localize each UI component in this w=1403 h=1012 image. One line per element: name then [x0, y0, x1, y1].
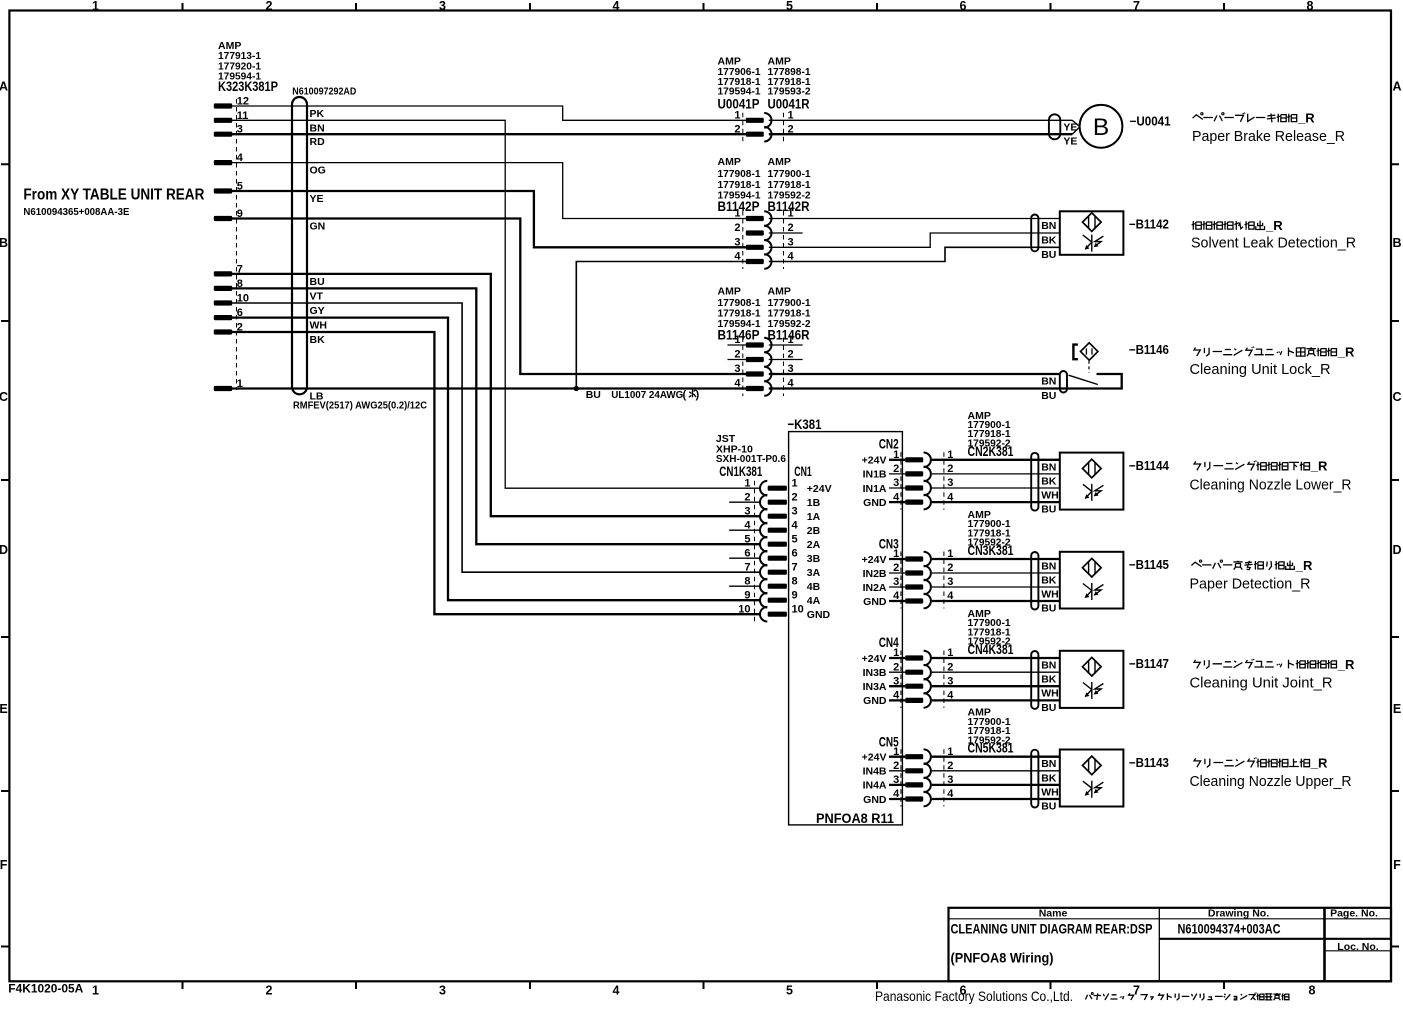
- svg-text:−B1144: −B1144: [1129, 459, 1169, 473]
- svg-text:+24V: +24V: [862, 554, 887, 566]
- svg-text:5: 5: [786, 0, 793, 13]
- svg-text:AMP: AMP: [768, 286, 791, 298]
- svg-text:3: 3: [744, 505, 750, 517]
- svg-text:1: 1: [893, 449, 899, 461]
- connector pair B1142P/B1142R header: [718, 156, 811, 215]
- svg-text:4: 4: [613, 984, 620, 998]
- svg-text:E: E: [0, 702, 8, 716]
- svg-text:1: 1: [893, 647, 899, 659]
- wire PK pin12 to U0041P pin1: [232, 106, 746, 120]
- svg-text:1B: 1B: [807, 497, 821, 509]
- svg-text:CN2K381: CN2K381: [968, 444, 1014, 460]
- svg-text:BU: BU: [310, 276, 325, 288]
- svg-text:4: 4: [613, 0, 620, 13]
- svg-text:+24V: +24V: [807, 483, 832, 495]
- wire CN5K381 pin2 to sensor: [932, 770, 1060, 772]
- svg-text:_R: _R: [1310, 459, 1328, 474]
- wire B1146R pin2 stub: [769, 359, 803, 361]
- junction BU net: [574, 386, 579, 391]
- svg-text:From XY TABLE UNIT REAR: From XY TABLE UNIT REAR: [23, 187, 204, 204]
- wire GY pin10 to CN1 pin7: [232, 303, 761, 572]
- Japanese label B1144: [1194, 461, 1309, 471]
- svg-text:_R: _R: [1337, 657, 1355, 672]
- svg-text:IN2B: IN2B: [863, 568, 887, 580]
- svg-text:CN1K381: CN1K381: [719, 464, 762, 480]
- wire B1142R pin2 stub: [769, 232, 803, 234]
- svg-text:IN3A: IN3A: [863, 681, 887, 693]
- svg-text:A: A: [0, 79, 8, 93]
- svg-text:N610094374+003AC: N610094374+003AC: [1178, 921, 1281, 937]
- Japanese label cleaning unit lock: [1194, 347, 1337, 357]
- svg-text:1: 1: [734, 208, 740, 220]
- connector pair U0041P/U0041R header: [718, 56, 811, 113]
- svg-text:UL1007 24AWG: UL1007 24AWG: [611, 389, 683, 401]
- svg-text:1: 1: [92, 984, 99, 998]
- svg-text:F: F: [1393, 858, 1401, 872]
- svg-text:Cleaning Nozzle Lower_R: Cleaning Nozzle Lower_R: [1190, 476, 1352, 493]
- cable bundle oval N610097292AD: [292, 97, 307, 394]
- svg-text:1: 1: [92, 0, 99, 13]
- svg-text:4: 4: [734, 251, 741, 263]
- svg-text:8: 8: [792, 575, 798, 587]
- svg-text:9: 9: [792, 589, 798, 601]
- wire LB pin1 to B1146P pin4: [232, 387, 746, 389]
- svg-text:BK: BK: [1041, 475, 1057, 487]
- connector pair B1142P/B1142R pins: [734, 208, 794, 269]
- Japanese label B1147: [1194, 659, 1337, 669]
- svg-text:−U0041: −U0041: [1130, 115, 1171, 129]
- svg-text:IN1A: IN1A: [863, 483, 887, 495]
- svg-text:RMFEV(2517) AWG25(0.2)/12C: RMFEV(2517) AWG25(0.2)/12C: [293, 400, 427, 412]
- border row letters: [0, 79, 1402, 872]
- sensor B1143: [1031, 750, 1123, 808]
- svg-text:7: 7: [792, 561, 798, 573]
- svg-text:Paper Brake Release_R: Paper Brake Release_R: [1192, 128, 1345, 145]
- wire B1142R pin4 to sensor BU: [769, 247, 1060, 261]
- svg-text:1: 1: [734, 110, 740, 122]
- title block texts: [951, 908, 1379, 966]
- relay terminal block K381 box: [789, 432, 903, 825]
- wire CN1 pin6 stub: [729, 557, 760, 559]
- connector CN4K381 AMP header: [968, 608, 1014, 658]
- svg-text:RD: RD: [310, 136, 326, 148]
- wire CN3K381 pin4 to sensor: [932, 600, 1060, 602]
- svg-text:BU: BU: [1041, 249, 1056, 261]
- svg-text:Panasonic Factory Solutions Co: Panasonic Factory Solutions Co.,Ltd.: [875, 988, 1073, 1004]
- svg-text:IN1B: IN1B: [863, 469, 887, 481]
- svg-text:2A: 2A: [807, 539, 821, 551]
- svg-text:CN5K381: CN5K381: [968, 741, 1014, 757]
- wire CN2K381 pin2 to sensor: [932, 473, 1060, 475]
- svg-text:2: 2: [893, 463, 899, 475]
- svg-text:GN: GN: [310, 221, 326, 233]
- svg-text:6: 6: [792, 547, 798, 559]
- svg-text:3: 3: [734, 363, 740, 375]
- svg-text:3: 3: [893, 675, 899, 687]
- wire CN4K381 pin1 to sensor: [932, 657, 1060, 659]
- connector CN1K381 header: [716, 433, 786, 480]
- svg-text:OG: OG: [310, 165, 326, 177]
- svg-text:(PNFOA8 Wiring): (PNFOA8 Wiring): [951, 949, 1054, 965]
- svg-text:8: 8: [1309, 984, 1316, 998]
- svg-text:B: B: [1392, 236, 1401, 250]
- svg-text:BN: BN: [1041, 220, 1056, 232]
- svg-text:9: 9: [744, 589, 750, 601]
- svg-text:1: 1: [744, 477, 750, 489]
- svg-text:−B1143: −B1143: [1129, 756, 1169, 770]
- wire B1146R pin4 BU return: [769, 374, 1122, 389]
- svg-text:−B1146: −B1146: [1129, 343, 1169, 357]
- svg-text:YE: YE: [1063, 136, 1077, 148]
- svg-text:6: 6: [960, 0, 967, 13]
- svg-text:BU: BU: [1041, 603, 1056, 615]
- svg-text:7: 7: [1133, 0, 1140, 13]
- svg-text:3: 3: [893, 774, 899, 786]
- wire B1142R pin1 BN to sensor: [769, 218, 1060, 220]
- svg-text:1A: 1A: [807, 511, 821, 523]
- svg-text:PNFOA8 R11: PNFOA8 R11: [816, 811, 894, 827]
- svg-text:C: C: [1392, 390, 1401, 404]
- Japanese label B1143: [1194, 757, 1309, 767]
- wire CN2K381 pin4 to sensor: [932, 501, 1060, 503]
- svg-text:BK: BK: [1041, 235, 1057, 247]
- svg-text:D: D: [0, 543, 8, 557]
- svg-text:4: 4: [893, 491, 900, 503]
- Japanese label solvent leak detection: [1192, 221, 1265, 230]
- svg-text:3: 3: [792, 505, 798, 517]
- svg-text:Loc. No.: Loc. No.: [1337, 941, 1378, 953]
- svg-text:2: 2: [893, 661, 899, 673]
- wire B1146R pin3 BN to switch: [769, 373, 1060, 375]
- sensor B1143 wire labels: [1041, 758, 1059, 812]
- svg-text:N610094365+008AA-3E: N610094365+008AA-3E: [23, 206, 129, 218]
- svg-text:2: 2: [893, 760, 899, 772]
- wire CN3K381 pin1 to sensor: [932, 558, 1060, 560]
- svg-text:BK: BK: [310, 334, 326, 346]
- connector CN5/CN5K381 pins: [862, 746, 955, 807]
- svg-text:−K381: −K381: [788, 417, 822, 433]
- svg-text:10: 10: [738, 603, 750, 615]
- svg-text:2: 2: [734, 123, 740, 135]
- sensor B1144 wire labels: [1041, 461, 1059, 515]
- svg-text:_R: _R: [1337, 345, 1355, 360]
- svg-text:10: 10: [792, 603, 804, 615]
- switch B1146 cleaning unit lock: [1060, 343, 1098, 393]
- svg-text:GND: GND: [807, 609, 831, 621]
- svg-text:YE: YE: [310, 193, 324, 205]
- wire CN3K381 pin3 to sensor: [932, 586, 1060, 588]
- svg-text:3: 3: [439, 0, 446, 13]
- wire CN1 pin8 stub: [729, 585, 760, 587]
- svg-text:BN: BN: [310, 122, 325, 134]
- svg-text:WH: WH: [1041, 688, 1059, 700]
- svg-text:Drawing No.: Drawing No.: [1208, 908, 1269, 920]
- wire BK pin2 to CN1 pin10: [232, 332, 761, 614]
- svg-text:C: C: [0, 390, 8, 404]
- wire CN5K381 pin4 to sensor: [932, 798, 1060, 800]
- svg-text:4B: 4B: [807, 581, 821, 593]
- connector CN3/CN3K381 pins: [862, 548, 955, 608]
- svg-text:4A: 4A: [807, 595, 821, 607]
- svg-text:CLEANING UNIT DIAGRAM REAR:DSP: CLEANING UNIT DIAGRAM REAR:DSP: [951, 921, 1153, 937]
- connector CN1 pins: [738, 477, 831, 621]
- sensor B1145: [1031, 552, 1123, 610]
- svg-text:AMP: AMP: [718, 286, 741, 298]
- svg-text:N610097292AD: N610097292AD: [292, 86, 356, 98]
- svg-text:WH: WH: [1041, 589, 1059, 601]
- svg-text:BK: BK: [1041, 575, 1057, 587]
- wire BU branch to B1142P pin4: [576, 262, 746, 389]
- svg-text:−B1145: −B1145: [1129, 558, 1169, 572]
- svg-text:VT: VT: [310, 290, 324, 302]
- svg-text:BU: BU: [1041, 390, 1056, 402]
- svg-text:BU: BU: [586, 389, 601, 401]
- svg-text:2: 2: [893, 562, 899, 574]
- wire CN4K381 pin4 to sensor: [932, 699, 1060, 701]
- svg-text:4: 4: [893, 590, 900, 602]
- wire CN5K381 pin1 to sensor: [932, 756, 1060, 758]
- svg-text:B: B: [0, 236, 8, 250]
- wire B1146P pin2 stub left: [728, 359, 747, 361]
- wire CN2K381 pin3 to sensor: [932, 487, 1060, 489]
- svg-text:3B: 3B: [807, 553, 821, 565]
- svg-text:+24V: +24V: [862, 752, 887, 764]
- svg-text:2B: 2B: [807, 525, 821, 537]
- svg-text:_R: _R: [1310, 756, 1328, 771]
- wire RD pin3 to U0041P pin2: [232, 133, 746, 135]
- svg-text:AMP: AMP: [768, 156, 791, 168]
- connector CN4/CN4K381 pins: [862, 647, 955, 708]
- wire OG pin4 to B1142P pin1: [232, 163, 746, 219]
- wire CN4K381 pin2 to sensor: [932, 671, 1060, 673]
- svg-text:A: A: [1392, 79, 1401, 93]
- svg-text:IN4B: IN4B: [863, 766, 887, 778]
- svg-text:BU: BU: [1041, 702, 1056, 714]
- svg-text:WH: WH: [1041, 490, 1059, 502]
- svg-text:3: 3: [439, 984, 446, 998]
- svg-text:BU: BU: [1041, 801, 1056, 813]
- svg-text:Cleaning Unit Lock_R: Cleaning Unit Lock_R: [1190, 361, 1331, 378]
- svg-text:BK: BK: [1041, 674, 1057, 686]
- svg-text:−B1147: −B1147: [1129, 657, 1169, 671]
- svg-text:BN: BN: [1041, 660, 1056, 672]
- wire BU pin7 to CN1 pin3: [232, 274, 761, 516]
- svg-text:3A: 3A: [807, 567, 821, 579]
- wire BN pin11 to CN1 pin1: [232, 120, 761, 488]
- svg-text:_R: _R: [1265, 218, 1283, 233]
- connector pair U0041P/U0041R pins: [734, 110, 793, 142]
- motor U0041 brake coil: [1049, 105, 1123, 148]
- svg-text:+24V: +24V: [862, 455, 887, 467]
- wire CN1 pin4 stub: [729, 529, 760, 531]
- svg-text:+24V: +24V: [862, 653, 887, 665]
- svg-text:GY: GY: [310, 305, 325, 317]
- wire YE pin5 to B1142P pin3: [232, 191, 746, 247]
- svg-text:_R: _R: [1297, 111, 1315, 126]
- connector CN3K381 AMP header: [968, 509, 1014, 559]
- kanji in parens: [689, 390, 696, 398]
- svg-text:Cleaning Unit Joint_R: Cleaning Unit Joint_R: [1190, 675, 1333, 692]
- svg-text:): ): [696, 389, 700, 401]
- svg-text:AMP: AMP: [718, 156, 741, 168]
- svg-text:PK: PK: [310, 108, 325, 120]
- svg-text:2: 2: [266, 984, 273, 998]
- svg-text:2: 2: [734, 222, 740, 234]
- sensor B1147 wire labels: [1041, 660, 1059, 714]
- sensor B1147: [1031, 651, 1123, 709]
- svg-text:4: 4: [893, 690, 900, 702]
- svg-text:BU: BU: [1041, 504, 1056, 516]
- svg-text:1: 1: [893, 746, 899, 758]
- Japanese label paper brake release: [1193, 113, 1297, 123]
- wire CN5K381 pin3 to sensor: [932, 784, 1060, 786]
- border column numbers top: [92, 0, 1314, 13]
- wire U0041R pin2 to motor: [769, 133, 1072, 135]
- svg-text:IN2A: IN2A: [863, 582, 887, 594]
- svg-text:F: F: [0, 858, 8, 872]
- svg-text:8: 8: [1307, 0, 1314, 13]
- wire colour labels: [310, 108, 328, 403]
- wire WH pin6 to CN1 pin9: [232, 318, 761, 601]
- svg-text:3: 3: [734, 237, 740, 249]
- svg-text:2: 2: [792, 491, 798, 503]
- svg-text:GND: GND: [863, 497, 887, 509]
- svg-text:BN: BN: [1041, 561, 1056, 573]
- svg-text:5: 5: [786, 984, 793, 998]
- svg-text:BK: BK: [1041, 772, 1057, 784]
- svg-text:K323K381P: K323K381P: [218, 79, 278, 95]
- svg-text:YE: YE: [1063, 122, 1077, 134]
- svg-text:BN: BN: [1041, 376, 1056, 388]
- wire B1146P pin1 stub left: [728, 344, 747, 346]
- svg-text:−B1142: −B1142: [1129, 218, 1169, 232]
- svg-text:IN4A: IN4A: [863, 780, 887, 792]
- connector CN5K381 AMP header: [968, 707, 1014, 757]
- wire B1142R pin3 to sensor BK: [769, 233, 1060, 247]
- svg-text:_R: _R: [1295, 558, 1313, 573]
- wire CN4K381 pin3 to sensor: [932, 685, 1060, 687]
- wire GN pin9 to B1146P pin3: [232, 219, 746, 375]
- svg-text:D: D: [1392, 543, 1401, 557]
- wire CN1 pin2 stub: [729, 501, 760, 503]
- svg-text:1: 1: [792, 477, 798, 489]
- svg-text:Solvent Leak Detection_R: Solvent Leak Detection_R: [1191, 235, 1356, 252]
- svg-text:WH: WH: [310, 320, 328, 332]
- svg-text:3: 3: [893, 477, 899, 489]
- wire VT pin8 to CN1 pin5: [232, 288, 761, 544]
- svg-text:B: B: [1093, 114, 1109, 141]
- svg-text:2: 2: [266, 0, 273, 13]
- sensor B1142 solvent leak detection: [1031, 211, 1123, 255]
- svg-text:E: E: [1393, 702, 1401, 716]
- connector K323K381P header: [218, 40, 278, 95]
- svg-text:GND: GND: [863, 596, 887, 608]
- Japanese label B1145: [1191, 560, 1294, 570]
- svg-text:3: 3: [893, 576, 899, 588]
- wire B1146R pin1 stub: [769, 344, 803, 346]
- svg-text:Page. No.: Page. No.: [1330, 908, 1378, 920]
- wire CN3K381 pin2 to sensor: [932, 572, 1060, 574]
- svg-text:Cleaning Nozzle Upper_R: Cleaning Nozzle Upper_R: [1190, 773, 1352, 790]
- connector CN2K381 AMP header: [968, 410, 1014, 460]
- wire U0041R pin1 to motor: [769, 119, 1072, 121]
- svg-text:1: 1: [893, 548, 899, 560]
- svg-text:5: 5: [792, 533, 798, 545]
- svg-text:4: 4: [792, 519, 799, 531]
- border column numbers bottom: [92, 984, 1316, 998]
- sensor B1144: [1031, 453, 1123, 511]
- svg-text:Paper Detection_R: Paper Detection_R: [1190, 576, 1311, 593]
- svg-text:BN: BN: [1041, 461, 1056, 473]
- svg-text:WH: WH: [1041, 786, 1059, 798]
- svg-text:Name: Name: [1039, 908, 1068, 920]
- svg-text:4: 4: [734, 378, 741, 390]
- svg-text:GND: GND: [863, 794, 887, 806]
- svg-text:7: 7: [744, 561, 750, 573]
- svg-text:(: (: [683, 389, 687, 401]
- Japanese footer company name: [1085, 993, 1289, 1001]
- svg-text:F4K1020-05A: F4K1020-05A: [8, 984, 83, 996]
- connector pair B1146P/B1146R pins: [734, 334, 794, 396]
- svg-text:CN3K381: CN3K381: [968, 543, 1014, 559]
- svg-text:IN3B: IN3B: [863, 667, 887, 679]
- svg-text:4: 4: [893, 788, 900, 800]
- connector K323K381P pins: [214, 96, 249, 392]
- wire CN2K381 pin1 to sensor: [932, 459, 1060, 461]
- sensor B1145 wire labels: [1041, 561, 1059, 615]
- svg-text:5: 5: [744, 533, 750, 545]
- connector pair B1146P/B1146R header: [718, 286, 811, 344]
- title block: [949, 908, 1392, 982]
- connector CN2/CN2K381 pins: [862, 449, 955, 510]
- svg-text:CN4K381: CN4K381: [968, 642, 1014, 658]
- svg-text:GND: GND: [863, 695, 887, 707]
- svg-text:BN: BN: [1041, 758, 1056, 770]
